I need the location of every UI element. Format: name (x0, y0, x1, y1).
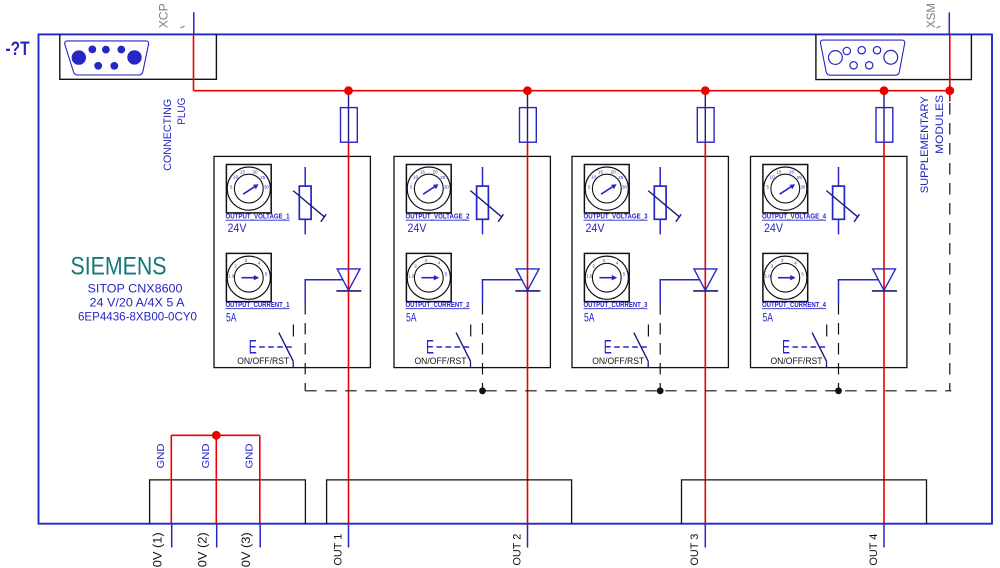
potentiometer OUTPUT_VOLTAGE_2 frame (406, 165, 451, 213)
potentiometer OUTPUT_VOLTAGE_2 dial (407, 167, 450, 210)
wire output red OUT1 (348, 141, 350, 524)
wire GND bus (171, 434, 259, 436)
wire diode branch ch4 (838, 279, 878, 303)
junction bus-F2 (523, 86, 532, 95)
label OUTPUT_VOLTAGE_3 (584, 212, 648, 221)
fuse F3 (697, 108, 714, 143)
switch bottom stub ch1 (292, 361, 294, 367)
svg-text:5A: 5A (584, 313, 595, 325)
switch lever ch4 (812, 333, 826, 362)
switch contact dash ch3 (647, 325, 649, 337)
svg-text:5A: 5A (763, 313, 774, 325)
switch bottom stub ch2 (470, 361, 472, 367)
label OUTPUT_CURRENT_2 (406, 300, 470, 309)
connector XSM sockets (829, 47, 898, 70)
svg-text:30: 30 (264, 185, 269, 190)
potentiometer OUTPUT_CURRENT_4 dial (764, 256, 807, 299)
svg-text:24 V/20 A/4X 5 A: 24 V/20 A/4X 5 A (90, 296, 185, 310)
svg-text:15: 15 (240, 170, 245, 175)
diode V1 (336, 269, 361, 291)
svg-text:30: 30 (622, 185, 627, 190)
varistor R2 wires (482, 167, 484, 234)
svg-text:-?T: -?T (6, 39, 30, 60)
svg-text:PLUG: PLUG (176, 98, 188, 125)
svg-text:GND: GND (200, 443, 212, 468)
svg-text:ON/OFF/RST: ON/OFF/RST (592, 356, 644, 366)
wire fuse feed F1 (348, 93, 350, 141)
terminal pin 0V (3) (259, 524, 261, 548)
junction bus-F4 (880, 86, 889, 95)
wire diode branch ch2 (482, 279, 522, 303)
wire GND drop 1 (170, 435, 172, 523)
svg-text:OUTPUT_CURRENT_1: OUTPUT_CURRENT_1 (226, 300, 291, 309)
svg-text:20: 20 (611, 170, 616, 175)
label OUTPUT_CURRENT_1 (226, 300, 291, 309)
varistor R3 diagonal (648, 191, 681, 222)
svg-text:OUTPUT_CURRENT_2: OUTPUT_CURRENT_2 (406, 300, 470, 309)
svg-text:24V: 24V (586, 223, 605, 235)
svg-text:OUT 3: OUT 3 (689, 534, 701, 566)
switch contact dash ch2 (470, 325, 472, 337)
wire fuse feed F2 (527, 93, 529, 141)
terminal pin OUT 4 (883, 524, 885, 548)
wire fuse feed F3 (704, 93, 706, 141)
connector housing XCP (60, 34, 217, 79)
svg-text:GND: GND (155, 443, 167, 468)
svg-text:10: 10 (591, 174, 596, 179)
svg-text:20: 20 (433, 170, 438, 175)
tick near XCP (181, 26, 185, 28)
svg-text:ON/OFF/RST: ON/OFF/RST (771, 356, 823, 366)
wire fuse feed F4 (883, 93, 885, 141)
varistor R1 wires (304, 167, 306, 234)
junction bus-XSM (945, 86, 954, 95)
potentiometer OUTPUT_CURRENT_1 frame (226, 253, 271, 301)
fuse F2 (520, 108, 537, 143)
connector housing XSM (816, 34, 972, 79)
varistor R2 body (477, 186, 489, 219)
switch bottom stub ch3 (647, 361, 649, 367)
svg-text:25: 25 (797, 175, 802, 180)
junction enable bus x838 (835, 387, 842, 394)
svg-text:XSM: XSM (924, 3, 938, 28)
svg-text:OUTPUT_CURRENT_3: OUTPUT_CURRENT_3 (584, 300, 648, 309)
varistor R4 wires (838, 167, 840, 234)
wire XCP drop red (193, 34, 195, 90)
wire XSM drop red (949, 34, 951, 90)
svg-text:OUTPUT_VOLTAGE_1: OUTPUT_VOLTAGE_1 (226, 212, 291, 221)
svg-text:10: 10 (413, 174, 418, 179)
wire output red OUT3 (704, 141, 706, 524)
varistor R3 body (654, 186, 666, 219)
terminal pin OUT 1 (348, 524, 350, 548)
dashed wire enable drop ch4 (838, 303, 840, 391)
dashed wire enable drop ch3 (659, 303, 661, 391)
dashed enable bus (305, 390, 951, 392)
svg-text:15: 15 (598, 170, 603, 175)
svg-text:24V: 24V (228, 223, 247, 235)
svg-text:SIEMENS: SIEMENS (71, 252, 167, 280)
svg-text:25: 25 (260, 175, 265, 180)
diode V3 (693, 269, 718, 291)
svg-text:1.0: 1.0 (408, 274, 415, 279)
dashed wire enable drop ch1 (304, 303, 306, 391)
switch actuator dashes ch1 (259, 346, 294, 348)
svg-text:ON/OFF/RST: ON/OFF/RST (237, 356, 289, 366)
svg-text:OUT 4: OUT 4 (868, 534, 880, 566)
potentiometer OUTPUT_VOLTAGE_3 dial (585, 167, 628, 210)
svg-text:SUPPLEMENTARY: SUPPLEMENTARY (919, 96, 931, 194)
svg-text:OUT 2: OUT 2 (511, 534, 523, 566)
pin wire XCP top (193, 12, 195, 34)
svg-text:10: 10 (233, 174, 238, 179)
potentiometer OUTPUT_CURRENT_2 dial (407, 256, 450, 299)
varistor R4 diagonal (826, 191, 859, 222)
potentiometer OUTPUT_VOLTAGE_4 dial (764, 167, 807, 210)
svg-text:0V (3): 0V (3) (241, 532, 253, 567)
channel 1 block outline (214, 156, 370, 367)
terminal pin OUT 3 (704, 524, 706, 548)
wire output red OUT4 (883, 141, 885, 524)
svg-text:1.0: 1.0 (765, 274, 772, 279)
potentiometer OUTPUT_VOLTAGE_1 dial (227, 167, 270, 210)
potentiometer OUTPUT_CURRENT_3 frame (584, 253, 629, 301)
svg-text:0V (1): 0V (1) (152, 532, 164, 567)
wire 24V bus (194, 90, 950, 92)
junction GND (212, 431, 221, 440)
svg-text:GND: GND (243, 443, 255, 468)
svg-text:30: 30 (444, 185, 449, 190)
switch lever ch1 (279, 333, 293, 362)
potentiometer OUTPUT_VOLTAGE_4 frame (763, 165, 808, 213)
fuse F1 (341, 108, 358, 143)
potentiometer OUTPUT_CURRENT_4 frame (763, 253, 808, 301)
connector XSM D-sub face (820, 40, 904, 75)
connector XCP pins (72, 46, 142, 70)
svg-text:30: 30 (800, 185, 805, 190)
svg-text:20: 20 (789, 170, 794, 175)
terminal pin 0V (2) (216, 524, 218, 548)
svg-text:24V: 24V (764, 223, 783, 235)
channel 4 block outline (751, 156, 907, 367)
svg-text:CONNECTING: CONNECTING (162, 99, 174, 171)
svg-text:24V: 24V (408, 223, 427, 235)
junction bus-F3 (701, 86, 710, 95)
terminal strip 0V (150, 480, 306, 524)
wire GND drop 3 (259, 435, 261, 523)
varistor R1 body (299, 186, 311, 219)
wire diode branch ch3 (660, 279, 700, 303)
label OUTPUT_VOLTAGE_1 (226, 212, 291, 221)
varistor R4 body (833, 186, 845, 219)
svg-text:10: 10 (770, 174, 775, 179)
switch lever ch3 (634, 333, 648, 362)
switch contact dash ch1 (292, 325, 294, 337)
svg-text:ON/OFF/RST: ON/OFF/RST (415, 356, 467, 366)
label OUTPUT_CURRENT_4 (762, 300, 827, 309)
switch bottom stub ch4 (826, 361, 828, 367)
potentiometer OUTPUT_VOLTAGE_1 frame (226, 165, 271, 213)
diode V2 (515, 269, 540, 291)
svg-text:15: 15 (420, 170, 425, 175)
label OUTPUT_CURRENT_3 (584, 300, 648, 309)
wire XSM stub below bus (949, 91, 951, 102)
potentiometer OUTPUT_CURRENT_2 frame (406, 253, 451, 301)
svg-text:25: 25 (440, 175, 445, 180)
svg-text:6EP4436-8XB00-0CY0: 6EP4436-8XB00-0CY0 (78, 310, 197, 324)
label OUTPUT_VOLTAGE_4 (762, 212, 827, 221)
varistor R2 diagonal (470, 191, 503, 222)
svg-text:1.0: 1.0 (586, 274, 593, 279)
switch actuator dashes ch4 (793, 346, 828, 348)
junction bus-F1 (344, 86, 353, 95)
svg-text:20: 20 (253, 170, 258, 175)
junction enable bus x660 (657, 387, 664, 394)
label OUTPUT_VOLTAGE_2 (406, 212, 470, 221)
terminal strip OUT3-4 (682, 480, 927, 524)
wire output red OUT2 (527, 141, 529, 524)
switch contact dash ch4 (826, 325, 828, 337)
svg-text:0V (2): 0V (2) (197, 532, 209, 567)
svg-text:25: 25 (618, 175, 623, 180)
connector XCP D-sub face (65, 41, 149, 75)
terminal strip OUT1-2 (327, 480, 572, 524)
svg-text:MODULES: MODULES (934, 95, 946, 154)
varistor R1 diagonal (293, 191, 326, 222)
channel 3 block outline (572, 156, 728, 367)
svg-text:15: 15 (777, 170, 782, 175)
terminal pin 0V (1) (171, 524, 173, 548)
junction enable bus x482 (479, 387, 486, 394)
switch lever ch2 (456, 333, 470, 362)
potentiometer OUTPUT_VOLTAGE_3 frame (584, 165, 629, 213)
switch actuator dashes ch2 (437, 346, 472, 348)
potentiometer OUTPUT_CURRENT_3 dial (585, 256, 628, 299)
svg-text:XCP: XCP (156, 3, 170, 28)
tick near XSM (937, 26, 941, 28)
varistor R3 wires (659, 167, 661, 234)
svg-text:OUTPUT_VOLTAGE_2: OUTPUT_VOLTAGE_2 (406, 212, 470, 221)
pin wire XSM top (948, 12, 950, 34)
wire diode branch ch1 (305, 279, 343, 303)
svg-text:OUTPUT_VOLTAGE_4: OUTPUT_VOLTAGE_4 (762, 212, 827, 221)
switch actuator dashes ch3 (614, 346, 649, 348)
terminal pin OUT 2 (527, 524, 529, 548)
potentiometer OUTPUT_CURRENT_1 dial (227, 256, 270, 299)
dashed riser to supplementary modules (949, 103, 951, 391)
wire GND drop 2 (215, 435, 217, 523)
svg-text:5A: 5A (406, 313, 417, 325)
svg-text:5A: 5A (226, 313, 237, 325)
diode V4 (872, 269, 897, 291)
svg-text:OUT 1: OUT 1 (332, 534, 344, 566)
dashed wire enable drop ch2 (482, 303, 484, 391)
fuse F4 (876, 108, 893, 143)
svg-text:OUTPUT_CURRENT_4: OUTPUT_CURRENT_4 (762, 300, 827, 309)
svg-text:SITOP CNX8600: SITOP CNX8600 (88, 282, 183, 296)
channel 2 block outline (394, 156, 550, 367)
svg-text:1.0: 1.0 (228, 274, 235, 279)
svg-text:OUTPUT_VOLTAGE_3: OUTPUT_VOLTAGE_3 (584, 212, 648, 221)
